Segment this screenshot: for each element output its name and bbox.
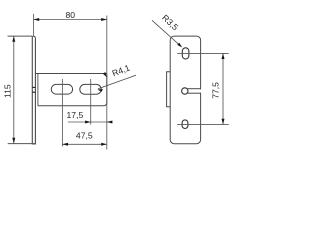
dimension 77,5: bottom arrow — [222, 119, 225, 125]
dimension 115: line — [13, 36, 15, 143]
keyhole slot neck top line — [187, 88, 201, 90]
dimension 80: line — [34, 19, 107, 21]
dimension 115: top extension line — [8, 35, 33, 37]
hole H1 (top obround) — [182, 48, 189, 59]
svg-text:77,5: 77,5 — [210, 82, 220, 99]
node: flange notch upper tick — [32, 86, 35, 88]
wire: shelf top edge — [35, 73, 106, 75]
svg-text:47,5: 47,5 — [76, 130, 93, 140]
centerline of hole H1 / extension for 77,5 top — [177, 52, 229, 54]
node: slot opening gap in right edge — [199, 89, 202, 92]
dimension 115: bottom arrow — [12, 138, 15, 144]
node: flange notch lower tick — [32, 91, 35, 93]
dimension 17,5: line with outside arrows — [68, 121, 113, 123]
dimension 77,5: line — [222, 53, 224, 124]
tab on plate left edge — [167, 72, 171, 107]
wire: flange right edge — [34, 38, 36, 144]
extension line: 80 dim left — [33, 14, 35, 36]
svg-text:115: 115 — [3, 84, 13, 98]
wire: flange bottom close — [32, 143, 36, 145]
slot S1 (left obround) — [51, 84, 72, 94]
wire: shelf bend line — [37, 74, 39, 106]
dimension 17,5: right arrow (points left, tip at shelf edge) — [107, 121, 113, 124]
centerline of slot S1 / extension for 47,5 — [61, 79, 63, 146]
centerline of hole H2 / extension for 77,5 bottom — [177, 123, 229, 125]
extension line: shelf right edge extended up and down — [106, 16, 108, 150]
dimension 77,5: top arrow — [222, 53, 225, 59]
leader R3,5: line — [152, 20, 182, 47]
wire: shelf right edge + bottom edge with rounded corner — [38, 74, 107, 106]
dimension 47,5: line — [62, 143, 106, 145]
dimension 47,5: left arrow — [62, 143, 68, 146]
keyhole slot neck bottom line — [187, 92, 201, 94]
leader R4,1: line — [98, 75, 136, 89]
svg-text:80: 80 — [66, 10, 76, 20]
leader R3,5: arrowhead — [177, 43, 182, 48]
wire: flange top small step — [33, 36, 36, 38]
wire: flange left edge — [31, 36, 33, 144]
dimension 115: bottom extension line — [8, 143, 36, 145]
centerline of slot S2 / extension for 17,5 — [90, 79, 92, 125]
dimension 47,5: right arrow — [101, 143, 107, 146]
leader R4,1: arrowhead — [97, 89, 103, 92]
plate outline — [170, 36, 200, 144]
dimension 80: right arrow — [101, 18, 107, 21]
dimension 17,5: left arrow (points right, tip at slot-2 centerline) — [85, 121, 91, 124]
hole H2 (bottom obround) — [182, 120, 188, 129]
keyhole slot bulb — [182, 88, 188, 94]
svg-text:17,5: 17,5 — [67, 110, 84, 120]
slot S2 (right obround) — [80, 84, 101, 94]
corner arrowhead at shelf top-right — [103, 72, 107, 77]
dimension 115: top arrow — [12, 36, 15, 42]
dimension 80: left arrow — [34, 18, 40, 21]
